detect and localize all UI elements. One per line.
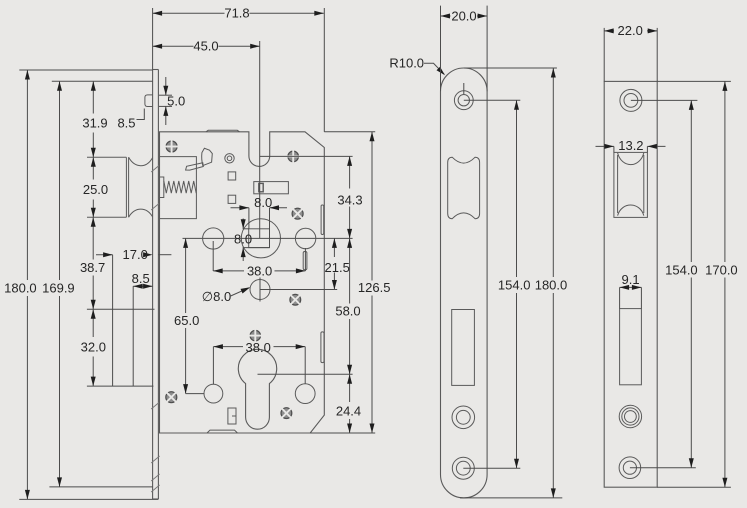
screw centerline top [260, 155, 353, 157]
svg-text:31.9: 31.9 [82, 115, 107, 130]
faceplate bottom hole [452, 457, 474, 479]
svg-text:154.0: 154.0 [498, 278, 531, 293]
screw B3 (cross) [277, 404, 296, 423]
svg-text:169.9: 169.9 [42, 281, 75, 296]
right hub circle [295, 228, 315, 248]
dim 65.0 [185, 238, 187, 313]
faceplate strip (side view) [152, 70, 154, 500]
svg-text:45.0: 45.0 [193, 39, 218, 54]
case bottom tab [207, 430, 238, 433]
follower square hole [249, 229, 270, 248]
svg-text:21.5: 21.5 [325, 260, 350, 275]
dim 22.0 [603, 28, 605, 82]
spring [164, 181, 196, 193]
dim 38.7 [92, 217, 94, 259]
dim 71.8 [152, 8, 154, 70]
screw B2 (cross) [162, 388, 181, 407]
cylinder screw left [204, 384, 223, 403]
svg-text:∅8.0: ∅8.0 [202, 289, 231, 304]
spring seat [160, 177, 164, 198]
faceplate top hole [454, 91, 473, 110]
latch housing box [160, 157, 197, 219]
latch lever head [202, 148, 213, 165]
dim 180.0 mid [464, 67, 557, 69]
dim 38.0 upper [212, 241, 214, 271]
screw T2 (plus) [287, 150, 300, 163]
dim 169.9 [52, 80, 153, 82]
dim 20.0 [440, 6, 442, 92]
faceplate latch cutout [448, 157, 480, 219]
latch bolt head [87, 156, 126, 158]
dim 9.1 [619, 287, 621, 308]
svg-text:65.0: 65.0 [174, 313, 199, 328]
svg-text:32.0: 32.0 [81, 340, 106, 355]
svg-text:25.0: 25.0 [83, 182, 108, 197]
dim 32.0 [92, 309, 94, 337]
dim 170.0 right [657, 80, 731, 82]
svg-text:5.0: 5.0 [167, 93, 185, 108]
small square hole S2 [228, 195, 236, 203]
cylinder screw right [295, 384, 315, 404]
dim 180.0 [19, 69, 152, 71]
svg-text:24.4: 24.4 [336, 403, 361, 418]
svg-text:38.7: 38.7 [80, 260, 105, 275]
auxiliary latch tab [145, 95, 153, 107]
svg-text:22.0: 22.0 [618, 23, 643, 38]
strike bottom hole [619, 457, 641, 479]
follower centerline vertical [259, 41, 261, 238]
svg-text:17.0: 17.0 [123, 247, 148, 262]
dim 34.3 [349, 156, 351, 188]
svg-text:154.0: 154.0 [665, 262, 698, 277]
dim 21.5 [333, 238, 335, 257]
svg-text:13.2: 13.2 [618, 138, 643, 153]
case top tab [206, 130, 240, 132]
right edge slot upper [321, 205, 324, 235]
svg-text:9.1: 9.1 [622, 272, 640, 287]
svg-text:8.5: 8.5 [132, 271, 150, 286]
faceplate cylinder cutout [452, 310, 475, 386]
strike top hole [620, 89, 642, 111]
strike middle hole [619, 405, 641, 427]
svg-text:20.0: 20.0 [451, 9, 476, 24]
dim 25.0 [92, 157, 94, 179]
strike plate outline [604, 81, 657, 487]
dim 5.0 [159, 94, 172, 96]
svg-text:34.3: 34.3 [337, 193, 362, 208]
lock case outline [160, 132, 325, 433]
faceplate middle hole [452, 406, 475, 429]
small square hole S1 [228, 172, 236, 180]
svg-text:180.0: 180.0 [535, 278, 568, 293]
slot rectangle [254, 182, 289, 194]
strike deadbolt cutout [620, 309, 642, 385]
screw T1 (plus) [165, 140, 178, 153]
faceplate hatch ticks [151, 165, 159, 172]
svg-text:38.0: 38.0 [246, 340, 271, 355]
right edge slot lower [321, 332, 324, 363]
hole dia 8 [250, 280, 270, 300]
svg-text:170.0: 170.0 [705, 262, 738, 277]
svg-text:8.5: 8.5 [117, 115, 135, 130]
dim 31.9 [92, 81, 94, 113]
svg-text:126.5: 126.5 [358, 280, 391, 295]
svg-text:71.8: 71.8 [224, 6, 249, 21]
slot below right hub [303, 252, 307, 270]
cylinder centerline [258, 373, 353, 375]
left hub circle [203, 228, 224, 249]
dim 45.0 [153, 45, 194, 47]
dim 154.0 mid [464, 99, 521, 101]
pivot pin [225, 154, 234, 163]
screw M1 (cross) [288, 204, 307, 223]
screw B1 (plus) [249, 329, 262, 342]
svg-text:8.0: 8.0 [234, 231, 252, 246]
follower circle [241, 219, 280, 258]
dim 126.5 [324, 131, 375, 133]
follower centerline horizontal [183, 237, 353, 239]
small part rect [228, 408, 236, 424]
svg-text:R10.0: R10.0 [389, 56, 424, 71]
dim 8.5 lower [133, 285, 152, 287]
dim 8.0 horizontal [231, 207, 249, 209]
euro cylinder keyhole [238, 349, 276, 429]
dim 58.0 [349, 238, 351, 303]
svg-text:38.0: 38.0 [247, 264, 272, 279]
dim 13.2 [613, 146, 615, 152]
screw M2 (cross) [286, 290, 305, 309]
dim 154.0 right [631, 99, 698, 101]
slot inner block [259, 183, 263, 191]
strike latch cutout [614, 152, 648, 217]
faceplate front outline [441, 68, 488, 498]
dim 8.0 vertical [242, 219, 244, 229]
svg-text:180.0: 180.0 [4, 281, 37, 296]
dim 38.0 lower [212, 347, 214, 385]
svg-text:58.0: 58.0 [335, 304, 360, 319]
ext lines mid-left [87, 308, 155, 310]
dim 24.4 [349, 374, 351, 402]
dim 17.0 [96, 254, 113, 256]
latch lever arm [186, 163, 204, 170]
svg-text:8.0: 8.0 [254, 195, 272, 210]
